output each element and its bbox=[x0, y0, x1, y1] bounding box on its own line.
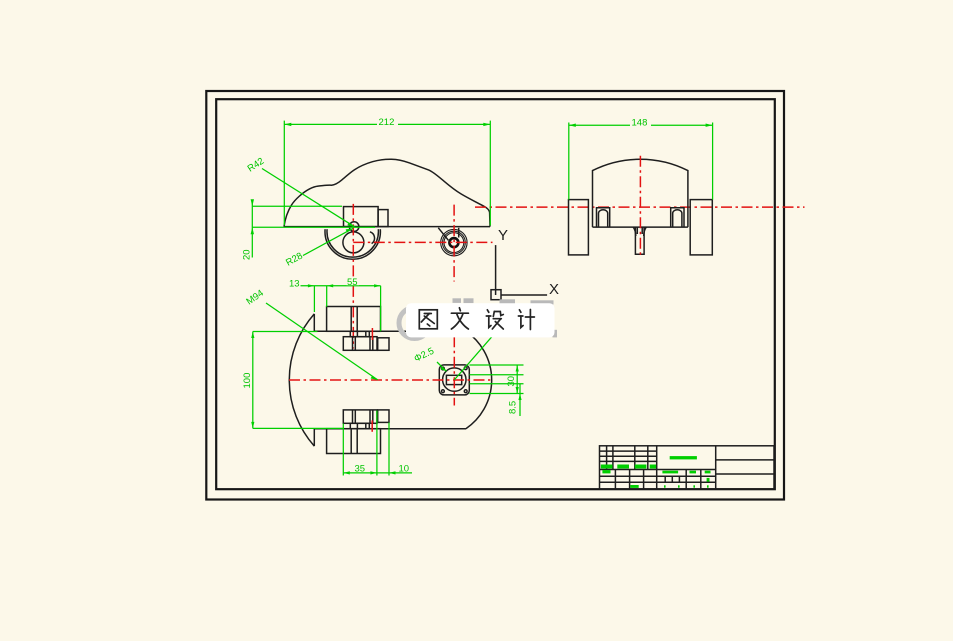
leader phi2.5 bbox=[412, 346, 446, 372]
center caster leg bbox=[633, 227, 646, 254]
body right arc bbox=[466, 331, 492, 428]
red centerline rear wheel vertical bbox=[453, 205, 455, 282]
top wheel unit big box bbox=[327, 307, 381, 332]
rear caster outer circle bbox=[441, 229, 467, 255]
watermark white box bbox=[406, 303, 555, 337]
bottom wheel unit main row bbox=[343, 410, 389, 423]
chassis motor box bbox=[344, 207, 379, 227]
front wheel outer arc bbox=[325, 229, 380, 259]
svg-text:8.5: 8.5 bbox=[508, 401, 519, 414]
svg-text:X: X bbox=[549, 281, 559, 298]
svg-text:30: 30 bbox=[506, 376, 517, 387]
green text blobs bbox=[601, 465, 613, 469]
flange bolt holes bbox=[442, 367, 468, 393]
svg-text:148: 148 bbox=[632, 118, 648, 129]
dimension 212 bbox=[284, 117, 490, 226]
red centerline front wheel horizontal bbox=[353, 241, 492, 243]
front wheel inner arc bbox=[327, 229, 378, 257]
top wheel unit thin row bbox=[350, 331, 369, 336]
red main horizontal centerline y207 bbox=[475, 206, 805, 208]
left arc bottom connector bbox=[313, 429, 315, 446]
leader R28 bbox=[284, 228, 353, 268]
lower-middle sub columns bbox=[671, 476, 673, 482]
left big wheel bbox=[569, 200, 589, 255]
dimension 148 bbox=[569, 117, 713, 200]
front wheel hub circle bbox=[343, 232, 364, 253]
axis horizontal line bbox=[501, 294, 547, 296]
bottom wheel unit thin row bbox=[350, 423, 369, 428]
red plan horizontal axis bbox=[289, 379, 490, 381]
right section rows bbox=[716, 459, 774, 461]
dimension 35 and 10 bbox=[343, 411, 412, 476]
top-left grid columns bbox=[606, 446, 608, 470]
origin square bbox=[491, 290, 501, 300]
gray piece right bbox=[553, 330, 558, 338]
red centerline front wheel vertical bbox=[352, 204, 354, 349]
dimension 13 and 55 bbox=[289, 277, 381, 331]
flange circle bbox=[443, 368, 466, 391]
lower-left grid columns bbox=[614, 470, 616, 490]
chassis step box bbox=[378, 210, 388, 227]
red flange vertical centerline bbox=[453, 336, 455, 405]
main verticals bbox=[656, 446, 658, 489]
leader R42 bbox=[246, 156, 355, 227]
rear caster fork left bbox=[438, 228, 448, 241]
glyph wen bbox=[451, 308, 468, 329]
body bottom edge bbox=[314, 428, 466, 430]
red tick top unit bbox=[371, 328, 373, 340]
svg-text:35: 35 bbox=[355, 464, 366, 475]
red tick bottom unit bbox=[371, 420, 373, 431]
bottom wheel unit big box bbox=[327, 429, 381, 454]
axis vertical line bbox=[495, 245, 497, 295]
top wheel unit main row bbox=[343, 337, 389, 351]
glyph tu bbox=[419, 310, 437, 329]
gray char tops above box bbox=[453, 298, 462, 303]
flange inner rect bbox=[446, 375, 461, 384]
dimension 20 bbox=[242, 199, 376, 260]
car bottom baseline bbox=[284, 226, 490, 228]
leader M4 line bbox=[454, 336, 492, 380]
glyph ji bbox=[518, 310, 534, 330]
body top edge bbox=[314, 330, 466, 332]
outer border frame bbox=[206, 91, 784, 500]
gray logo ring bbox=[399, 308, 430, 339]
car body outline bbox=[284, 159, 490, 226]
dimension 30 and 8.5 bbox=[470, 365, 524, 416]
svg-text:100: 100 bbox=[242, 373, 253, 389]
dimension 100 bbox=[242, 332, 344, 429]
top-left grid rows bbox=[600, 450, 657, 452]
title block outer bbox=[600, 446, 775, 489]
svg-text:20: 20 bbox=[242, 249, 253, 260]
front wheel arc fragment bbox=[370, 232, 375, 244]
left small wheel arch bbox=[597, 208, 610, 227]
right small wheel arch bbox=[671, 208, 684, 227]
glyph she bbox=[486, 310, 503, 329]
body left arc bbox=[289, 314, 314, 446]
lower-left grid rows bbox=[600, 475, 716, 477]
cab outline bbox=[593, 159, 688, 227]
rear caster hub ring bbox=[449, 238, 458, 247]
chassis bottom line bbox=[593, 226, 688, 228]
svg-text:212: 212 bbox=[379, 117, 395, 128]
rear caster fork right bbox=[458, 228, 460, 238]
inner border frame bbox=[216, 99, 775, 489]
svg-text:10: 10 bbox=[399, 464, 410, 475]
svg-text:13: 13 bbox=[289, 279, 300, 290]
right big wheel bbox=[690, 200, 712, 255]
svg-text:Y: Y bbox=[498, 227, 508, 244]
front wheel axle small circle bbox=[349, 222, 359, 232]
leader M94 bbox=[244, 288, 377, 380]
svg-text:55: 55 bbox=[347, 277, 358, 288]
flange square bbox=[439, 365, 469, 395]
left arc top connector bbox=[313, 314, 315, 331]
rear caster inner circle bbox=[444, 233, 464, 253]
red centerline front view vertical bbox=[639, 156, 641, 257]
rear caster middle circle bbox=[443, 231, 466, 254]
